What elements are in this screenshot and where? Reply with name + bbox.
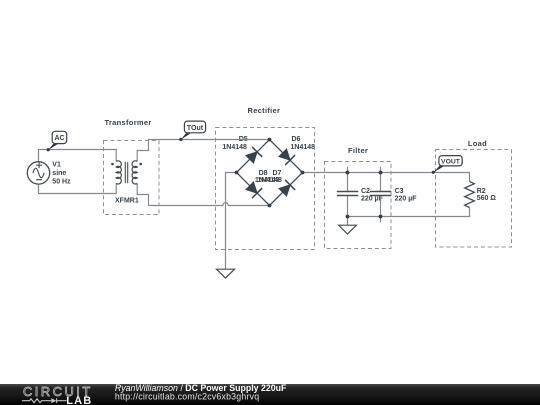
svg-text:560 Ω: 560 Ω	[477, 195, 497, 202]
svg-text:1N4148: 1N4148	[291, 144, 316, 151]
svg-text:R2: R2	[477, 188, 486, 195]
svg-text:D8: D8	[259, 170, 268, 177]
svg-text:50 Hz: 50 Hz	[52, 178, 71, 185]
svg-text:TOut: TOut	[187, 125, 204, 132]
svg-text:D7: D7	[273, 170, 282, 177]
svg-text:Filter: Filter	[348, 146, 368, 155]
svg-text:Rectifier: Rectifier	[248, 106, 281, 115]
svg-text:AC: AC	[54, 135, 64, 142]
svg-text:Load: Load	[468, 139, 487, 148]
svg-text:Transformer: Transformer	[105, 118, 152, 127]
svg-text:220 µF: 220 µF	[395, 196, 418, 203]
svg-text:C3: C3	[395, 188, 404, 195]
svg-text:D6: D6	[292, 136, 301, 143]
svg-text:LAB: LAB	[66, 395, 92, 405]
svg-text:1N4148: 1N4148	[257, 177, 282, 184]
svg-text:http://circuitlab.com/c2cv6xb3: http://circuitlab.com/c2cv6xb3ghrvq	[115, 392, 259, 402]
svg-text:sine: sine	[52, 170, 66, 177]
svg-text:V1: V1	[52, 161, 61, 168]
svg-text:XFMR1: XFMR1	[115, 198, 139, 205]
svg-text:1N4148: 1N4148	[222, 144, 247, 151]
svg-text:VOUT: VOUT	[441, 159, 461, 166]
svg-text:C2: C2	[361, 188, 370, 195]
